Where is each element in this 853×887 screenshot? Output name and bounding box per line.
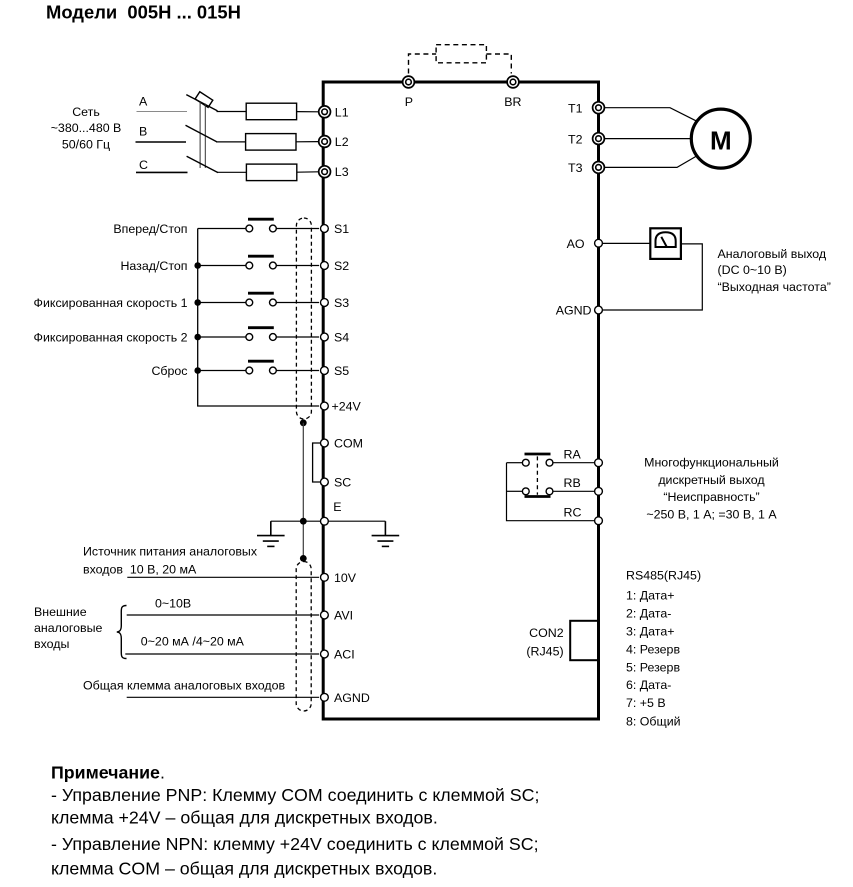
wire fuse C to L3	[297, 171, 319, 173]
node: mains text Сеть ~380...480 В 50/60 Гц	[51, 105, 122, 151]
svg-text:5: Резерв: 5: Резерв	[626, 660, 680, 674]
disconnect switch Q1 blade phase C	[187, 156, 218, 172]
svg-text:Внешние: Внешние	[34, 605, 87, 619]
svg-text:Аналоговый выход: Аналоговый выход	[718, 247, 827, 261]
svg-text:Источник питания аналоговых: Источник питания аналоговых	[83, 545, 258, 559]
svg-text:+24V: +24V	[332, 400, 362, 414]
svg-text:50/60 Гц: 50/60 Гц	[62, 137, 110, 151]
terminal T1	[593, 102, 605, 114]
wire S2 row	[198, 265, 319, 267]
label Аналоговый выход (DC 0~10 В) Выходная частота	[718, 247, 831, 294]
switch contact S2	[246, 256, 276, 269]
disconnect switch Q1 blade phase B	[186, 125, 217, 141]
svg-text:Общая клемма аналоговых входов: Общая клемма аналоговых входов	[83, 679, 286, 693]
fuse F2	[246, 134, 296, 151]
svg-text:L3: L3	[335, 165, 349, 179]
svg-text:- Управление PNP: Клемму COM с: - Управление PNP: Клемму COM соединить с…	[51, 785, 539, 805]
terminal T2	[593, 133, 605, 145]
terminal 10V	[321, 573, 329, 581]
terminal RC	[595, 517, 603, 525]
svg-text:COM: COM	[334, 437, 363, 451]
svg-text:- Управление NPN: клемму +24V: - Управление NPN: клемму +24V соединить …	[51, 834, 539, 854]
switch contact S1	[246, 219, 276, 232]
terminal T3	[593, 162, 605, 174]
junction dot S2	[194, 262, 201, 269]
wire T3 to motor	[605, 156, 697, 167]
svg-text:входы: входы	[34, 637, 69, 651]
svg-text:L1: L1	[335, 105, 349, 119]
ground symbol right	[372, 521, 400, 546]
terminal S5	[321, 367, 329, 375]
svg-text:аналоговые: аналоговые	[34, 621, 103, 635]
fuse F1	[246, 103, 296, 120]
terminal E	[321, 517, 329, 525]
disconnect switch Q1 handle	[195, 92, 213, 108]
svg-text:4: Резерв: 4: Резерв	[626, 643, 680, 657]
svg-text:Многофункциональный: Многофункциональный	[644, 455, 779, 469]
wire fuse A to L1	[297, 111, 319, 113]
wire RB row	[507, 490, 595, 492]
svg-text:~380...480 В: ~380...480 В	[51, 121, 122, 135]
switch contact S3	[246, 293, 276, 306]
disconnect switch Q1 linkage bars	[199, 102, 201, 168]
meter analog output	[650, 228, 681, 259]
svg-text:~250 В, 1 А; =30 В, 1 А: ~250 В, 1 А; =30 В, 1 А	[646, 507, 777, 521]
svg-text:T2: T2	[568, 132, 583, 146]
wire switch to fuse C	[218, 171, 247, 173]
svg-text:“Неисправность”: “Неисправность”	[663, 490, 759, 504]
terminal +24V	[321, 402, 329, 410]
svg-text:дискретный выход: дискретный выход	[658, 473, 765, 487]
wire phase B input	[136, 141, 187, 143]
disconnect switch Q1 blade phase A	[186, 95, 217, 111]
wire S5 row	[198, 370, 319, 372]
svg-text:RS485(RJ45): RS485(RJ45)	[626, 569, 701, 583]
svg-text:Модели 005H ... 015H: Модели 005H ... 015H	[46, 2, 241, 23]
wire S3 row	[198, 302, 319, 304]
junction dot S4	[194, 334, 201, 341]
label Внешние аналоговые входы	[34, 605, 103, 651]
braking resistor dashed rect	[436, 45, 486, 63]
shielded cable oval analog inputs	[296, 562, 311, 712]
motor M	[691, 109, 750, 168]
terminal S3	[321, 299, 329, 307]
svg-text:Фиксированная скорость 1: Фиксированная скорость 1	[34, 296, 188, 310]
svg-text:L2: L2	[335, 135, 349, 149]
terminal P	[403, 76, 415, 88]
svg-text:Назад/Стоп: Назад/Стоп	[120, 259, 187, 273]
svg-text:0~10В: 0~10В	[155, 596, 191, 610]
terminal RA	[595, 459, 603, 467]
wire input bus vertical	[198, 229, 319, 407]
terminal SC	[321, 478, 329, 486]
svg-text:T3: T3	[568, 161, 583, 175]
wire 10V row	[127, 576, 319, 578]
wire fuse B to L2	[296, 141, 319, 143]
svg-text:S2: S2	[334, 259, 349, 273]
terminal AO	[595, 239, 603, 247]
svg-text:(RJ45): (RJ45)	[526, 644, 563, 658]
jumper COM to SC	[313, 443, 320, 482]
svg-text:ACI: ACI	[334, 648, 355, 662]
wire ACI row	[125, 653, 319, 655]
wire switch to fuse B	[216, 141, 246, 143]
svg-text:M: M	[710, 126, 732, 156]
svg-text:клемма +24V – общая для дискре: клемма +24V – общая для дискретных входо…	[51, 807, 438, 827]
svg-text:AO: AO	[567, 237, 585, 251]
switch contact S4	[246, 328, 276, 341]
wire relay left bus	[507, 463, 595, 521]
wire phase A input	[137, 111, 188, 113]
terminal L1	[319, 106, 331, 118]
svg-text:S1: S1	[334, 222, 349, 236]
label CON2 (RJ45)	[526, 626, 563, 658]
wire E row	[271, 520, 386, 522]
svg-text:2: Дата-: 2: Дата-	[626, 607, 671, 621]
wire AGND row	[127, 696, 319, 698]
wire RA row	[507, 462, 595, 464]
svg-text:входов 10 В, 20 мА: входов 10 В, 20 мА	[83, 563, 197, 577]
label RS485 pinout	[626, 569, 701, 729]
svg-text:RC: RC	[564, 505, 582, 519]
connector CON2 rect	[570, 621, 598, 660]
drive unit main box	[323, 82, 598, 719]
svg-text:3: Дата+: 3: Дата+	[626, 625, 674, 639]
label Многофункциональный дискретный выход Неисправность	[644, 455, 779, 521]
wire S4 row	[198, 336, 319, 338]
svg-text:CON2: CON2	[529, 626, 564, 640]
terminal L2	[319, 136, 331, 148]
note Примечание	[51, 763, 539, 879]
braking resistor dashed wiring	[409, 54, 512, 74]
terminal L3	[319, 166, 331, 178]
svg-text:T1: T1	[568, 101, 583, 115]
wire shield drain vertical	[302, 423, 304, 559]
svg-text:S5: S5	[334, 364, 349, 378]
terminal S2	[321, 262, 329, 270]
shielded cable oval digital inputs	[296, 218, 311, 419]
relay contact RA normally open	[522, 454, 553, 466]
svg-text:S3: S3	[334, 296, 349, 310]
fuse F3	[246, 164, 296, 181]
relay contact RB normally closed	[522, 488, 553, 497]
wire T2 to motor	[605, 138, 691, 140]
terminal BR	[507, 76, 519, 88]
svg-text:RA: RA	[564, 447, 582, 461]
svg-text:8: Общий: 8: Общий	[626, 715, 681, 729]
wire S1 row	[198, 228, 319, 230]
svg-text:RB: RB	[564, 476, 581, 490]
junction dot S3	[194, 299, 201, 306]
terminal AGND right	[595, 306, 603, 314]
terminal S1	[321, 225, 329, 233]
svg-text:6: Дата-: 6: Дата-	[626, 678, 671, 692]
svg-text:E: E	[333, 500, 341, 514]
svg-text:10V: 10V	[334, 571, 357, 585]
terminal COM	[321, 439, 329, 447]
svg-text:Вперед/Стоп: Вперед/Стоп	[113, 222, 187, 236]
svg-text:Сброс: Сброс	[151, 364, 187, 378]
wire meter to AGND loop	[603, 244, 703, 310]
svg-text:“Выходная частота”: “Выходная частота”	[718, 280, 831, 294]
svg-text:1: Дата+: 1: Дата+	[626, 588, 674, 602]
wire AO to meter	[603, 242, 651, 244]
wire switch to fuse A	[217, 111, 247, 113]
terminal AVI	[321, 611, 329, 619]
terminal RB	[595, 487, 603, 495]
ground symbol left	[257, 521, 285, 546]
svg-text:7: +5 В: 7: +5 В	[626, 696, 666, 710]
box right edge over CON2	[597, 619, 600, 662]
wire phase C input	[136, 171, 188, 173]
svg-text:AGND: AGND	[556, 304, 592, 318]
svg-text:Фиксированная скорость 2: Фиксированная скорость 2	[34, 330, 188, 344]
wire T1 to motor	[605, 108, 697, 121]
relay mechanical link dashed	[536, 456, 538, 494]
svg-text:AVI: AVI	[334, 609, 353, 623]
svg-text:0~20 мА /4~20 мА: 0~20 мА /4~20 мА	[141, 634, 245, 648]
switch contact S5	[246, 361, 276, 374]
svg-text:Сеть: Сеть	[72, 105, 100, 119]
svg-text:S4: S4	[334, 331, 349, 345]
brace external analog inputs	[117, 606, 127, 659]
label Источник питания аналоговых входов 10 В, 20 мА	[83, 545, 258, 577]
wire AVI row	[127, 614, 319, 616]
svg-text:C: C	[139, 158, 148, 172]
junction dot shield drain analog	[300, 555, 307, 562]
svg-text:(DC 0~10 В): (DC 0~10 В)	[718, 263, 787, 277]
svg-text:BR: BR	[504, 95, 521, 109]
svg-text:клемма COM – общая для дискрет: клемма COM – общая для дискретных входов…	[51, 858, 437, 878]
svg-text:SC: SC	[334, 476, 351, 490]
terminal AGND	[321, 693, 329, 701]
svg-text:B: B	[139, 125, 147, 139]
svg-text:Примечание.: Примечание.	[51, 763, 165, 783]
junction dot shield drain top	[300, 419, 307, 426]
junction dot S5	[194, 367, 201, 374]
svg-text:AGND: AGND	[334, 691, 370, 705]
terminal ACI	[321, 650, 329, 658]
svg-text:P: P	[405, 95, 413, 109]
terminal S4	[321, 333, 329, 341]
junction dot E drain	[300, 518, 307, 525]
svg-text:A: A	[139, 94, 148, 108]
